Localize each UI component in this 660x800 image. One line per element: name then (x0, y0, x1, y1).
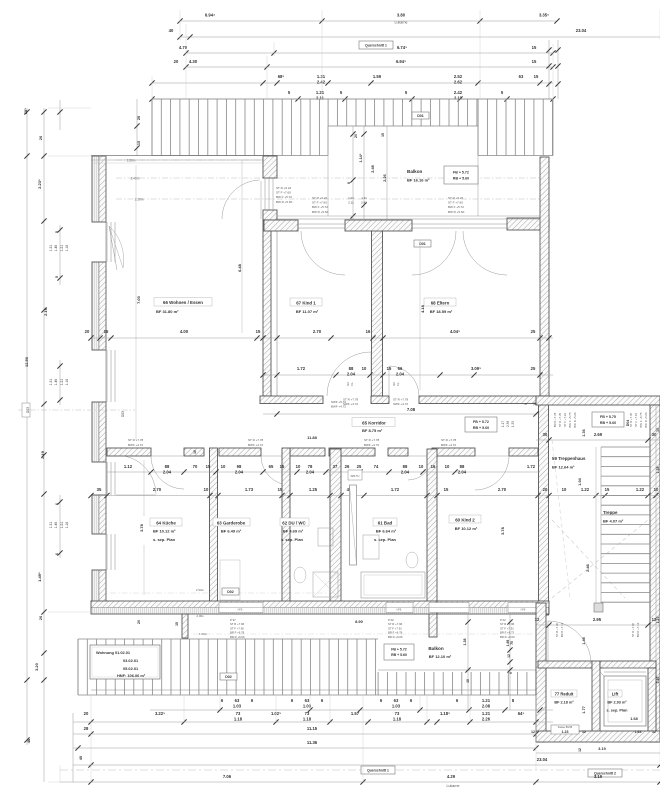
svg-text:1.16: 1.16 (65, 522, 69, 529)
svg-text:15: 15 (534, 74, 539, 79)
balcony top ST texts (448, 196, 465, 214)
svg-text:3.78: 3.78 (500, 526, 505, 535)
balcony vertical dim lines (347, 126, 387, 219)
svg-text:1.72: 1.72 (297, 366, 306, 371)
wall Bad-Kind2 balcony stub (429, 607, 437, 637)
svg-text:2.70: 2.70 (153, 487, 162, 492)
room label 63 Garderobe (213, 518, 250, 534)
svg-text:D01: D01 (417, 114, 424, 118)
svg-text:7.08: 7.08 (407, 407, 416, 412)
svg-text:2.50m: 2.50m (196, 588, 205, 592)
right exterior wall upper (540, 157, 549, 396)
stair left rotated texts (553, 412, 577, 428)
kind2 door leaf (475, 455, 509, 457)
balcony wall stub left (182, 614, 188, 638)
bottom wall window 3 (429, 603, 469, 613)
svg-text:1.48: 1.48 (582, 637, 586, 644)
dim 2.95 entrance (535, 617, 660, 628)
roof contour line 2.40m (116, 177, 540, 181)
svg-text:ST F +7.60: ST F +7.60 (276, 191, 291, 195)
svg-text:3.19: 3.19 (598, 747, 605, 751)
D03 dash line (18, 403, 135, 417)
stairwell east wall (650, 405, 660, 742)
svg-text:1.57: 1.57 (351, 711, 360, 716)
svg-text:3.09⁵: 3.09⁵ (471, 366, 481, 371)
texts below corridor top wall (343, 398, 409, 407)
roof band bottom hatch (78, 614, 536, 695)
roof contour line 1.50m (116, 159, 263, 163)
vertical dim 4.18 Eltern (420, 240, 425, 390)
svg-text:88: 88 (349, 366, 354, 371)
svg-text:s. sep. Plan: s. sep. Plan (374, 537, 397, 542)
shaft duct (350, 485, 357, 565)
svg-text:2.00s: 2.00s (196, 614, 204, 618)
svg-text:1.50m: 1.50m (127, 159, 136, 163)
svg-text:6.94⁵: 6.94⁵ (396, 59, 406, 64)
svg-text:1.36: 1.36 (582, 429, 586, 436)
vertical dim 7.00 living (136, 165, 141, 440)
svg-text:73: 73 (236, 711, 241, 716)
svg-text:1.03: 1.03 (392, 703, 401, 708)
balcony french door Eltern glazing (412, 224, 507, 228)
corridor bottom wall segment 8 (509, 448, 538, 456)
door arc left wall lower (116, 455, 156, 495)
svg-text:05.02.01: 05.02.01 (123, 666, 139, 671)
svg-text:20: 20 (137, 620, 141, 624)
svg-text:BF 6.64 m²: BF 6.64 m² (376, 529, 397, 534)
left exterior wall pier 3 (92, 402, 106, 462)
svg-text:2.70: 2.70 (498, 487, 507, 492)
door label D01 mid (414, 240, 431, 247)
svg-text:1.63: 1.63 (635, 730, 642, 734)
svg-text:10: 10 (654, 487, 659, 492)
svg-text:62 DU / WC: 62 DU / WC (282, 521, 306, 526)
dormer cheek lines (328, 126, 478, 216)
svg-text:ST R +7.35: ST R +7.35 (558, 412, 562, 427)
svg-text:8: 8 (524, 403, 528, 405)
balcony west wall window glazing (265, 178, 273, 210)
svg-text:3.46: 3.46 (656, 677, 660, 684)
svg-text:25: 25 (357, 464, 362, 469)
svg-text:1.18: 1.18 (234, 716, 243, 721)
texts above kitchen wall row (128, 435, 457, 454)
bottom dim row E 23.04 (73, 757, 660, 768)
svg-text:15: 15 (387, 366, 392, 371)
svg-text:BF 31.80 m²: BF 31.80 m² (156, 309, 179, 314)
left exterior wall pier 1 (92, 156, 106, 222)
svg-text:ST R +6.22: ST R +6.22 (312, 196, 328, 200)
svg-text:Querschnitt 1: Querschnitt 1 (365, 43, 387, 47)
corridor top wall segment 3 (419, 396, 546, 404)
svg-text:ST R +7.78: ST R +7.78 (248, 438, 264, 442)
wall Kueche-Garderobe (210, 448, 218, 604)
bottom wall right part (437, 601, 549, 614)
corridor rotated dims right (501, 421, 515, 427)
svg-text:63: 63 (235, 698, 240, 703)
svg-text:BW R +5.60: BW R +5.60 (448, 210, 465, 214)
svg-text:10: 10 (362, 366, 367, 371)
svg-text:Lukarne: Lukarne (447, 784, 460, 788)
svg-text:1.31: 1.31 (317, 74, 326, 79)
wall Bad-Kind2 (427, 449, 437, 607)
svg-text:D03: D03 (26, 407, 30, 413)
svg-text:6.94⁴: 6.94⁴ (205, 12, 215, 17)
svg-text:FB + 5.72: FB + 5.72 (453, 170, 469, 174)
room label 66 Wohnen Essen (154, 298, 212, 315)
room label Balkon top (407, 169, 430, 183)
balcony french door Kind1 glazing (298, 224, 345, 228)
corridor bottom wall segment 7 (432, 448, 475, 456)
svg-text:10: 10 (562, 487, 567, 492)
room label 59 Treppenhaus (552, 456, 586, 470)
svg-text:25: 25 (531, 366, 536, 371)
svg-text:6: 6 (55, 503, 59, 505)
stair bottom post (594, 603, 603, 612)
balcony parapet wall segment left (264, 220, 298, 231)
room label Lift (607, 690, 629, 713)
balcony left tiny texts (276, 186, 293, 204)
svg-text:ST R +7.78: ST R +7.78 (441, 438, 457, 442)
svg-text:HNF: 106.06 m²: HNF: 106.06 m² (117, 673, 146, 678)
stair right rotated texts (629, 412, 648, 428)
left dim guide horizontals (48, 108, 91, 782)
svg-text:Querschnitt 1: Querschnitt 1 (367, 768, 389, 772)
bottom dim row B (73, 711, 553, 725)
svg-text:4.00: 4.00 (180, 329, 189, 334)
svg-text:2.42: 2.42 (454, 90, 463, 95)
svg-text:59 Treppenhaus: 59 Treppenhaus (552, 456, 586, 461)
entrance door arc (548, 621, 591, 664)
svg-text:68 Eltern: 68 Eltern (431, 301, 450, 306)
svg-text:5: 5 (509, 672, 513, 674)
svg-text:BF 10.12 m²: BF 10.12 m² (153, 529, 176, 534)
reduit west wall (536, 603, 546, 742)
svg-text:15: 15 (381, 133, 385, 137)
door arc balcony to Wohnen (222, 180, 261, 219)
svg-text:Lukarne: Lukarne (395, 21, 408, 25)
svg-text:23.04: 23.04 (576, 28, 587, 33)
svg-text:1.50m: 1.50m (199, 632, 208, 636)
svg-text:BW F +5.75: BW F +5.75 (639, 412, 643, 427)
svg-text:ST R +7.60: ST R +7.60 (631, 622, 635, 637)
svg-text:2.95: 2.95 (593, 617, 602, 622)
left vertical dimension 12.50 (24, 356, 29, 367)
svg-text:1.22: 1.22 (636, 487, 645, 492)
svg-text:66 Wohnen / Essen: 66 Wohnen / Essen (163, 300, 203, 305)
svg-text:98: 98 (237, 464, 242, 469)
dim 7.08 corridor (263, 407, 540, 417)
room label 64 Kueche (150, 518, 182, 542)
apartment info box (90, 645, 160, 679)
svg-text:BW F +5.72: BW F +5.72 (312, 205, 328, 209)
lift car (600, 672, 646, 726)
balcony stacked dim pairs (348, 196, 367, 205)
bottom contour 2.00 1.50 labels (110, 588, 540, 636)
wall between Wohnen and Kind1 (263, 220, 271, 396)
svg-text:2.04: 2.04 (401, 469, 410, 474)
svg-text:2.62: 2.62 (454, 79, 463, 84)
corridor right rotated extra (524, 402, 537, 406)
door label D02 balcony (220, 673, 237, 680)
wall face line Kind1 side (276, 220, 278, 396)
corridor FB RB box (465, 417, 497, 432)
lift shaft walls (600, 661, 656, 742)
bottom wall window 2 (386, 603, 413, 613)
room label 68 Eltern (424, 298, 456, 314)
svg-text:D03: D03 (121, 411, 125, 417)
balcony slab edge lines bottom (91, 670, 536, 690)
svg-text:2.26: 2.26 (383, 174, 387, 181)
svg-text:1.72: 1.72 (391, 487, 400, 492)
DUWC washing machine box (348, 470, 362, 480)
svg-text:2.52: 2.52 (454, 74, 463, 79)
left wall window dims column (49, 225, 69, 558)
corridor top wall segment 1 (260, 396, 323, 404)
svg-text:Balkon: Balkon (428, 646, 444, 651)
svg-text:1.31: 1.31 (49, 245, 53, 252)
svg-text:ST R +7.78: ST R +7.78 (128, 438, 144, 442)
section line Querschnitt bottom (60, 766, 660, 777)
wall DUWC-Bad (330, 449, 341, 607)
door arc to Kind2 (475, 456, 509, 490)
reduit rotated texts (555, 622, 640, 637)
svg-text:BF 6.49 m²: BF 6.49 m² (221, 529, 242, 534)
DUWC sink (318, 528, 333, 546)
svg-text:1.11: 1.11 (361, 196, 367, 200)
stair FB RB box (592, 412, 624, 427)
svg-text:12: 12 (652, 617, 657, 622)
svg-text:4.30: 4.30 (189, 59, 198, 64)
dimension row window widths (top row 6) (149, 90, 555, 102)
door arc to Bad (408, 456, 432, 480)
svg-text:1.59: 1.59 (373, 74, 382, 79)
svg-text:1.73: 1.73 (245, 487, 254, 492)
svg-text:63: 63 (305, 698, 310, 703)
svg-text:BW R +5.60: BW R +5.60 (573, 412, 577, 428)
stair vertical dim texts (578, 429, 586, 485)
svg-text:40: 40 (79, 756, 83, 760)
svg-text:10: 10 (296, 464, 301, 469)
svg-text:RB + 5.60: RB + 5.60 (391, 653, 407, 657)
svg-text:1.14⁵: 1.14⁵ (359, 153, 363, 162)
svg-text:65 Korridor: 65 Korridor (362, 421, 386, 426)
svg-text:RB + 5.60: RB + 5.60 (600, 421, 616, 425)
svg-text:73: 73 (305, 711, 310, 716)
svg-text:BF 11.07 m²: BF 11.07 m² (296, 309, 319, 314)
svg-text:3.80: 3.80 (397, 12, 406, 17)
svg-text:BW R +5.60: BW R +5.60 (312, 210, 329, 214)
svg-text:78: 78 (308, 464, 313, 469)
kitchen window sill (106, 462, 108, 495)
svg-text:12: 12 (582, 730, 586, 734)
svg-text:16: 16 (366, 329, 371, 334)
svg-text:5: 5 (55, 231, 59, 233)
room label Balkon bottom (428, 646, 452, 659)
svg-text:20: 20 (38, 135, 43, 140)
svg-text:12: 12 (652, 730, 656, 734)
svg-text:ST F +7.60: ST F +7.60 (312, 201, 327, 205)
svg-text:1.23: 1.23 (562, 730, 569, 734)
dim 3.19 below reduit (536, 747, 660, 753)
svg-text:BR R +7.13: BR R +7.13 (560, 622, 564, 637)
svg-text:63: 63 (394, 698, 399, 703)
svg-text:ST R +6.22: ST R +6.22 (276, 186, 292, 190)
svg-text:NFB: NFB (238, 609, 243, 612)
top wall window band living room (91, 156, 277, 164)
bottom balcony vertical dims (463, 614, 514, 710)
svg-text:16: 16 (431, 464, 436, 469)
svg-text:ST F +7.60: ST F +7.60 (448, 201, 463, 205)
corridor bottom wall segment 3 (219, 448, 261, 456)
svg-text:7.06: 7.06 (223, 774, 232, 779)
svg-text:BW F +5.72: BW F +5.72 (448, 205, 464, 209)
door arc to Garderobe (261, 456, 290, 485)
svg-text:03.02.01: 03.02.01 (123, 658, 139, 663)
left vertical dimension line outer (23, 100, 63, 782)
svg-text:SWF +5.72: SWF +5.72 (331, 400, 346, 404)
svg-text:1.31: 1.31 (49, 379, 53, 386)
svg-text:11.88: 11.88 (307, 435, 318, 440)
DUWC shower (313, 572, 338, 597)
svg-text:Lift: Lift (612, 692, 619, 697)
door arc to Kueche (151, 456, 184, 489)
dim row kitchen upper (107, 464, 540, 475)
svg-text:ST R +7.35: ST R +7.35 (629, 412, 633, 427)
svg-text:BF 4.69 m²: BF 4.69 m² (283, 529, 304, 534)
svg-text:40: 40 (169, 28, 174, 33)
balcony left tiny texts 2 (312, 196, 329, 214)
svg-text:1.16: 1.16 (65, 379, 69, 386)
left exterior wall pier 4 (92, 495, 106, 534)
svg-text:10: 10 (656, 428, 660, 432)
balcony top label box FB RB (444, 166, 478, 184)
svg-text:1.38: 1.38 (656, 467, 660, 474)
svg-text:2.04: 2.04 (347, 371, 356, 376)
roof contour line 2.30m (116, 198, 540, 202)
corridor bottom wall segment 2 (184, 448, 204, 456)
svg-text:ST F +7.23: ST F +7.23 (563, 413, 567, 427)
vertical dim 6.48 living (237, 160, 242, 333)
svg-text:BWF +4.72: BWF +4.72 (248, 443, 263, 447)
svg-text:BF 2.18 m²: BF 2.18 m² (554, 701, 574, 705)
svg-text:30: 30 (543, 432, 548, 437)
stairwell top wall (536, 396, 660, 405)
corridor bottom wall segment 5 (329, 448, 375, 456)
svg-text:RB + 5.60: RB + 5.60 (473, 426, 489, 430)
room label 60 Kind 2 (449, 515, 481, 531)
svg-text:3.22⁵: 3.22⁵ (155, 711, 165, 716)
svg-text:s. sep. Plan: s. sep. Plan (281, 537, 304, 542)
section marker Querschnitt 1 top (359, 41, 393, 49)
room label 67 Kind 1 (290, 298, 322, 314)
svg-text:NFB: NFB (397, 609, 402, 612)
band left edge dim (134, 99, 141, 156)
top dim guide verticals (152, 10, 660, 99)
svg-text:10: 10 (445, 464, 450, 469)
svg-text:2.26: 2.26 (482, 716, 491, 721)
bottom wall window 4 (508, 603, 540, 613)
bottom left vertical dim (73, 713, 83, 782)
svg-text:23.04: 23.04 (537, 757, 548, 762)
svg-text:Treppe: Treppe (603, 510, 618, 515)
svg-text:2.42: 2.42 (361, 201, 367, 205)
balcony parapet wall segment right (507, 218, 549, 230)
wall between Kind1 and Eltern (372, 221, 383, 396)
svg-text:20: 20 (543, 487, 548, 492)
svg-text:12.50: 12.50 (24, 356, 29, 367)
bottom dim row G (60, 774, 660, 785)
SZ FL marks Kind1 (346, 382, 354, 386)
svg-text:12: 12 (535, 617, 540, 622)
svg-text:BF 8.75 m²: BF 8.75 m² (362, 428, 383, 433)
svg-text:BWF +4.72: BWF +4.72 (441, 443, 456, 447)
stair treads (596, 447, 650, 603)
lift door lines (604, 668, 646, 672)
svg-text:BR R +7.35: BR R +7.35 (553, 412, 557, 427)
svg-text:2.48: 2.48 (371, 165, 375, 172)
svg-text:26: 26 (345, 464, 350, 469)
svg-text:1.21: 1.21 (60, 379, 64, 386)
left exterior wall pier 2 (92, 262, 106, 350)
texts below bottom wall 1 (230, 618, 245, 639)
svg-text:7.00: 7.00 (136, 295, 141, 304)
svg-text:88: 88 (403, 464, 408, 469)
svg-text:s. sep. Plan: s. sep. Plan (607, 709, 629, 713)
stair direction dashed lines (552, 440, 648, 598)
dimension row 4.70 / 6.74 (top row 3) (179, 45, 556, 56)
right vertical dim lines top (546, 40, 560, 99)
svg-text:20: 20 (84, 711, 89, 716)
svg-text:NFB: NFB (521, 609, 526, 612)
svg-text:1.25: 1.25 (309, 487, 318, 492)
svg-text:66: 66 (398, 366, 403, 371)
svg-text:15: 15 (278, 487, 283, 492)
svg-text:2.19: 2.19 (40, 450, 45, 459)
bottom wall rotated dims (137, 620, 179, 626)
svg-text:3.78: 3.78 (139, 523, 144, 532)
vertical dim 3.46 stair (585, 563, 590, 572)
corridor bottom wall segment 1 (107, 448, 151, 456)
svg-text:15: 15 (280, 464, 285, 469)
svg-text:ST R +6.22: ST R +6.22 (448, 196, 464, 200)
room label 77 Reduit (551, 690, 577, 705)
svg-text:20: 20 (85, 329, 90, 334)
svg-text:2.23⁵: 2.23⁵ (37, 179, 42, 189)
left wall window 3 glazing (107, 462, 115, 495)
svg-text:2.04: 2.04 (163, 469, 172, 474)
svg-text:2.04: 2.04 (306, 469, 315, 474)
bottom dim row D 11.36 (73, 740, 539, 751)
dimension row 20 4.30 6.94 (top row 4) (174, 59, 556, 70)
room label 62 DU WC (280, 518, 309, 542)
bad sink (363, 535, 379, 559)
svg-text:BF 10.12 m²: BF 10.12 m² (455, 526, 478, 531)
svg-text:2.70: 2.70 (313, 329, 322, 334)
left wall window 4 glazing (107, 534, 115, 570)
garderobe wardrobe (220, 560, 240, 600)
svg-text:FB + 5.75: FB + 5.75 (600, 415, 616, 419)
svg-text:88: 88 (460, 464, 465, 469)
svg-text:70: 70 (193, 464, 198, 469)
svg-text:1.18: 1.18 (393, 716, 402, 721)
svg-text:61 Bad: 61 Bad (378, 521, 393, 526)
svg-text:1.22: 1.22 (581, 487, 590, 492)
door label D02 kitchen window (222, 588, 239, 595)
bottom dim row A windows (150, 698, 553, 713)
svg-text:1.72: 1.72 (527, 464, 536, 469)
svg-text:3.20: 3.20 (34, 662, 39, 671)
svg-text:1.21: 1.21 (60, 522, 64, 529)
